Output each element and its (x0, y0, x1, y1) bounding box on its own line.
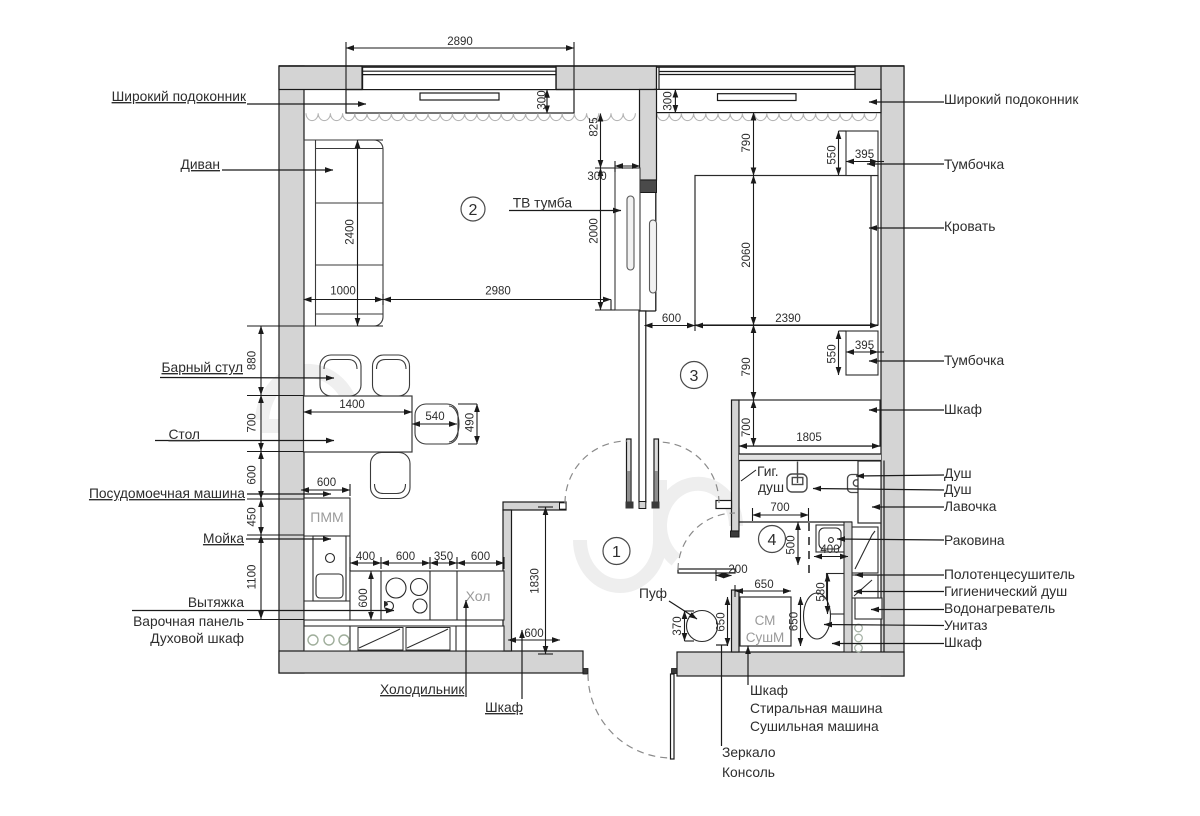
toilet (804, 574, 845, 640)
shower zone dashed line (808, 523, 810, 577)
svg-text:Шкаф: Шкаф (944, 402, 982, 417)
svg-text:Зеркало: Зеркало (722, 745, 776, 760)
svg-text:2400: 2400 (345, 219, 357, 245)
leader shower1 (856, 475, 944, 476)
svg-text:650: 650 (789, 612, 801, 631)
shower bench (858, 461, 881, 523)
svg-text:1805: 1805 (796, 432, 822, 444)
bar stool 1 (320, 355, 361, 396)
leader towel dryer (855, 574, 944, 576)
dim 650 washer top (735, 590, 791, 592)
dim 650 washer left (727, 597, 729, 646)
leader hyg shower (854, 591, 944, 593)
hood knobs (308, 635, 349, 645)
leader bath cabinet (832, 643, 944, 645)
pouf (687, 611, 718, 642)
leader shower2 (813, 489, 944, 491)
bar stool 2 (373, 355, 410, 396)
bedroom door leaf left (626, 439, 634, 509)
dim 825 line (600, 114, 602, 169)
leader nightstand top (867, 163, 944, 165)
dim 540 (412, 423, 457, 425)
svg-text:650: 650 (716, 612, 728, 631)
bathroom door leaf (678, 569, 735, 573)
svg-text:2390: 2390 (775, 313, 801, 325)
CALLOUT LABELS LEFT (89, 89, 667, 715)
dim 550 nightstand top (838, 131, 840, 176)
partition stub living/bedroom top (640, 90, 657, 181)
svg-text:300: 300 (663, 91, 675, 110)
WINDOWS (346, 67, 881, 113)
dim 200 (716, 575, 732, 577)
dim 2980 (383, 299, 611, 301)
svg-text:350: 350 (434, 551, 453, 563)
svg-text:600: 600 (396, 551, 415, 563)
window room2 frame lines (346, 67, 574, 89)
leader dishwasher (247, 493, 331, 495)
kitchen counter left column (304, 498, 350, 620)
svg-text:880: 880 (247, 351, 259, 370)
svg-text:600: 600 (524, 628, 543, 640)
top outer wall line (279, 65, 904, 67)
svg-text:Посудомоечная машина: Посудомоечная машина (89, 486, 245, 501)
entry door leaf (671, 674, 675, 759)
svg-text:3: 3 (690, 368, 699, 385)
shower floor boundary (739, 521, 852, 523)
kitchen sink (313, 536, 346, 601)
svg-text:450: 450 (247, 507, 259, 526)
window room3 sill box (655, 89, 882, 112)
svg-text:Душ: Душ (944, 466, 972, 481)
svg-text:400: 400 (356, 551, 375, 563)
dim 600 2390 bedroom line (645, 325, 696, 327)
svg-text:Шкаф: Шкаф (944, 635, 982, 650)
svg-text:700: 700 (247, 413, 259, 432)
dim 1805 (739, 445, 880, 447)
bedroom door swing arc right (658, 442, 719, 503)
svg-text:Сушильная машина: Сушильная машина (750, 719, 879, 734)
svg-text:1000: 1000 (330, 286, 356, 298)
svg-text:370: 370 (672, 616, 684, 635)
dim 300 window2 sill (546, 90, 548, 114)
svg-text:2980: 2980 (485, 286, 511, 298)
bathroom sink (816, 525, 844, 552)
dim 1400 (304, 411, 413, 413)
svg-text:790: 790 (741, 133, 753, 152)
svg-text:2890: 2890 (447, 36, 473, 48)
svg-text:395: 395 (855, 340, 874, 352)
svg-text:Душ: Душ (944, 482, 972, 497)
dim 1830 (545, 507, 547, 654)
svg-text:Раковина: Раковина (944, 533, 1005, 548)
kitchen-hall partition cap (560, 503, 567, 509)
svg-text:2000: 2000 (589, 218, 601, 244)
window room2 glazing bar (420, 93, 499, 100)
tv panel room3 (650, 220, 657, 293)
window room2 frame zone (363, 67, 557, 89)
kitchen upper band (304, 626, 504, 651)
leader table (155, 440, 334, 442)
wall bottom-right (677, 652, 904, 676)
water heater (855, 598, 882, 619)
leader bed (869, 227, 944, 229)
svg-text:600: 600 (247, 465, 259, 484)
svg-text:СушМ: СушМ (746, 630, 785, 645)
leader bench (872, 506, 944, 508)
towel dryer (852, 527, 878, 573)
DIMENSION TEXTS (247, 36, 875, 640)
dim 700 wardrobe (753, 400, 755, 446)
leader mirror console (721, 645, 723, 746)
leader toilet (824, 625, 944, 626)
cooktop burners (384, 578, 428, 613)
kitchen counter bottom row (350, 571, 504, 620)
svg-text:2: 2 (469, 202, 478, 219)
svg-text:700: 700 (741, 418, 753, 437)
dim 370 pouf (684, 611, 686, 641)
svg-text:550: 550 (827, 344, 839, 363)
leader nightstand bottom (869, 360, 944, 362)
window room3 frame zone (657, 67, 856, 89)
svg-text:ПММ: ПММ (310, 509, 343, 525)
svg-text:Пуф: Пуф (639, 586, 667, 601)
svg-text:Водонагреватель: Водонагреватель (944, 601, 1055, 616)
partition tv niche walls (640, 193, 656, 312)
bed (695, 176, 878, 326)
dim 2400 (357, 140, 359, 326)
leader pouf (669, 601, 697, 619)
CALLOUT LABELS BOTTOM (722, 464, 883, 780)
svg-text:Тумбочка: Тумбочка (944, 157, 1005, 172)
svg-text:ТВ тумба: ТВ тумба (513, 196, 573, 211)
wall bottom-left (279, 651, 583, 673)
svg-text:300: 300 (587, 171, 606, 183)
svg-text:СМ: СМ (755, 613, 776, 628)
svg-text:Консоль: Консоль (722, 765, 775, 780)
leader bar stool (160, 377, 334, 380)
svg-text:Шкаф: Шкаф (485, 700, 523, 715)
dim chain reference lines (247, 325, 304, 327)
dim kitchen run line (350, 562, 381, 564)
nightstand bottom (846, 331, 878, 375)
svg-text:700: 700 (770, 502, 789, 514)
wall top pier3 (855, 66, 904, 90)
svg-text:душ: душ (758, 480, 784, 495)
sofa (304, 140, 383, 326)
entry doorway cap left (583, 669, 588, 675)
svg-text:4: 4 (768, 532, 777, 549)
dim 300 tv depth (615, 165, 640, 167)
leader washer column (747, 646, 749, 685)
svg-text:Унитаз: Унитаз (944, 618, 987, 633)
svg-text:Стиральная машина: Стиральная машина (750, 701, 883, 716)
dim 2060 (753, 176, 755, 326)
leader closet kitchen (521, 630, 523, 699)
WALLS (279, 66, 904, 676)
svg-text:300: 300 (537, 90, 549, 109)
bathroom cabinet hoses (855, 624, 863, 652)
nightstand top (846, 131, 878, 176)
kitchen-hall partition vertical (503, 510, 512, 651)
leader hood (132, 610, 394, 612)
kitchen-hall partition horizontal (503, 502, 566, 510)
CALLOUT LABELS RIGHT (944, 92, 1079, 650)
hygienic shower unit (787, 462, 807, 493)
bathroom inner right edge (883, 461, 885, 653)
bedroom doorway end cap wall (639, 502, 646, 509)
curtain scallops room3 (657, 113, 877, 120)
dim 500 (797, 522, 799, 565)
svg-text:Тумбочка: Тумбочка (944, 353, 1005, 368)
svg-text:Широкий подоконник: Широкий подоконник (112, 89, 247, 104)
tv panel room2 (627, 196, 634, 270)
svg-text:Диван: Диван (180, 157, 220, 172)
ROOM CIRCLES (461, 197, 786, 565)
leader tv cabinet (509, 210, 621, 212)
svg-text:Холодильник: Холодильник (380, 682, 465, 697)
svg-text:Кровать: Кровать (944, 219, 995, 234)
dim 2000 line (600, 168, 602, 310)
wall top pier2 (556, 66, 657, 90)
bedroom door swing arc left (565, 441, 627, 503)
dim 550 nightstand bottom (838, 331, 840, 375)
leader windowsill right (869, 101, 944, 103)
svg-text:825: 825 (589, 117, 601, 136)
dim 600 hall closet (508, 639, 560, 641)
svg-text:Вытяжка: Вытяжка (188, 595, 244, 610)
dim 580 (827, 574, 829, 615)
dim 600 counter depth (370, 571, 372, 620)
svg-text:Полотенцесушитель: Полотенцесушитель (944, 567, 1075, 582)
svg-text:Стол: Стол (168, 427, 200, 442)
dim 650 washer right (800, 597, 802, 646)
LEADER LINES (132, 102, 944, 746)
svg-text:490: 490 (465, 413, 477, 432)
watermark (262, 371, 736, 586)
svg-text:400: 400 (820, 544, 839, 556)
dining table (304, 396, 413, 452)
svg-text:1: 1 (612, 544, 621, 561)
bathroom door swing arc (678, 513, 735, 570)
svg-text:790: 790 (741, 357, 753, 376)
svg-text:2060: 2060 (741, 242, 753, 268)
room circle 3 (681, 362, 708, 389)
dim 700 shower (753, 514, 809, 516)
wall top pier1 (279, 66, 362, 90)
svg-text:395: 395 (855, 149, 874, 161)
dim chain left vertical (260, 326, 262, 395)
room circle 2 (461, 197, 485, 221)
wardrobe bedroom (739, 400, 880, 446)
svg-text:650: 650 (754, 579, 773, 591)
svg-text:Мойка: Мойка (203, 531, 244, 546)
bathroom door top frame piece (716, 501, 732, 509)
window room3 frame lines (659, 67, 855, 89)
svg-text:Варочная панель: Варочная панель (133, 614, 244, 629)
svg-text:600: 600 (317, 477, 336, 489)
oven door 2 (406, 628, 450, 651)
svg-text:500: 500 (786, 535, 798, 554)
window room2 sill box (346, 90, 574, 113)
room circle 1 (603, 538, 630, 565)
leader windowsill left (247, 103, 366, 105)
bedroom door leaf right (652, 439, 660, 509)
bathroom left wall upper (732, 400, 740, 531)
dim 790 lower bedroom (753, 325, 755, 400)
leader wardrobe (869, 409, 944, 411)
window room3 glazing bar (718, 94, 797, 101)
svg-text:550: 550 (827, 145, 839, 164)
svg-text:1100: 1100 (247, 565, 259, 590)
svg-text:Хол: Хол (466, 588, 491, 604)
hygienic shower cell (852, 575, 878, 598)
svg-text:1830: 1830 (530, 568, 542, 594)
wall right (881, 66, 904, 676)
bathroom left wall lower stub (732, 590, 740, 652)
svg-text:580: 580 (816, 582, 828, 601)
svg-text:Духовой шкаф: Духовой шкаф (150, 631, 244, 646)
svg-text:Гигиенический душ: Гигиенический душ (944, 584, 1067, 599)
svg-text:600: 600 (662, 313, 681, 325)
dim 400 sink (814, 556, 848, 558)
leader sofa (222, 169, 333, 171)
shower head right (848, 475, 867, 493)
leader water heater (871, 609, 944, 611)
dim 790 upper bedroom (753, 113, 755, 176)
chair right (415, 404, 459, 444)
leader hyg local tick (741, 470, 756, 481)
svg-text:Гиг.: Гиг. (757, 464, 779, 479)
svg-text:Лавочка: Лавочка (944, 499, 997, 514)
partition stub dark cap (640, 180, 657, 193)
bathroom duct wall (844, 522, 852, 652)
dim 490 (476, 404, 478, 444)
tv cabinet room2 (615, 168, 640, 310)
DIMENSIONS (247, 42, 884, 654)
entry door swing arc (588, 674, 672, 758)
dim 300 window3 sill (674, 89, 676, 113)
svg-text:1400: 1400 (339, 399, 365, 411)
svg-text:Широкий подоконник: Широкий подоконник (944, 92, 1079, 107)
curtain scallops room2 (306, 113, 635, 120)
wall left (279, 66, 304, 673)
bathroom left wall cap (731, 531, 740, 537)
leader sink (246, 538, 331, 540)
dim 2890 line (346, 47, 574, 49)
svg-text:Барный стул: Барный стул (162, 360, 244, 375)
leader fridge (465, 600, 467, 697)
entry doorway cap right (672, 669, 678, 674)
dim 395 nightstand bottom (846, 351, 878, 353)
oven door 1 (358, 628, 403, 651)
svg-text:600: 600 (358, 588, 370, 607)
washer dryer box (740, 597, 791, 646)
partition living/bedroom thin wall (639, 311, 646, 502)
svg-text:540: 540 (425, 411, 444, 423)
chair bottom (371, 453, 411, 499)
svg-text:200: 200 (728, 564, 747, 576)
dim 1000 (304, 299, 384, 301)
svg-text:Шкаф: Шкаф (750, 683, 788, 698)
dim 600 dishwasher (301, 489, 350, 491)
svg-text:600: 600 (471, 551, 490, 563)
leader washbasin (837, 539, 944, 540)
bathroom/bedroom dividing wall (739, 446, 881, 461)
dim 395 nightstand top (846, 161, 878, 163)
room circle 4 (759, 526, 786, 553)
